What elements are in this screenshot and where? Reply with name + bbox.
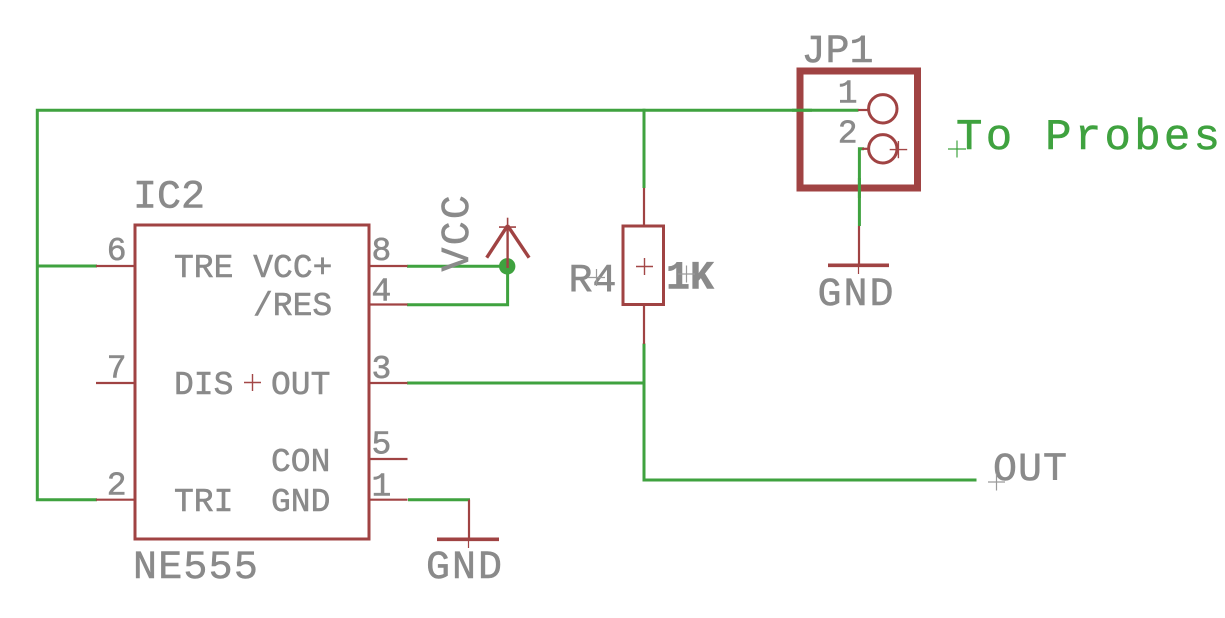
wire junction to pin4 (/RES) — [407, 265, 508, 305]
svg-text:OUT: OUT — [993, 448, 1068, 493]
wire pin6 branch — [36, 265, 97, 268]
junction dot VCC node — [499, 258, 515, 274]
IC2 origin cross — [244, 374, 261, 391]
JP1 pad 1 circle — [869, 95, 897, 123]
svg-text:NE555: NE555 — [133, 546, 259, 591]
resistor R4 body — [623, 226, 664, 305]
ground symbol below pin1 — [437, 500, 499, 548]
wire overlay over JP1 bottom edge — [858, 178, 861, 198]
wire overlay over JP1 left edge — [792, 109, 812, 112]
wire R4 bottom to OUT label — [644, 344, 977, 481]
svg-text:7: 7 — [107, 351, 127, 388]
svg-text:DIS: DIS — [174, 367, 233, 404]
svg-text:1: 1 — [372, 469, 392, 506]
svg-text:4: 4 — [372, 274, 392, 311]
svg-text:CON: CON — [271, 444, 330, 481]
pin 6 stub — [96, 265, 135, 267]
svg-text:3: 3 — [372, 351, 392, 388]
JP1 pad 2 circle — [869, 135, 897, 163]
svg-text:GND: GND — [271, 484, 330, 521]
svg-text:GND: GND — [817, 273, 895, 318]
To Probes origin cross — [948, 141, 966, 158]
pin 1 stub — [369, 499, 408, 501]
wire pin1 to GND — [408, 498, 470, 501]
svg-text:IC2: IC2 — [133, 176, 205, 221]
svg-text:To Probes: To Probes — [956, 113, 1223, 163]
svg-text:/RES: /RES — [253, 288, 332, 325]
ground symbol below JP1 — [828, 226, 889, 274]
svg-text:OUT: OUT — [271, 367, 330, 404]
pin 5 stub — [369, 458, 408, 460]
R4 origin cross — [636, 258, 653, 275]
1K text origin cross — [678, 266, 695, 283]
svg-text:1K: 1K — [666, 257, 714, 302]
svg-text:1: 1 — [838, 76, 858, 113]
svg-text:2: 2 — [107, 468, 127, 505]
wire bus to R4 top — [643, 109, 646, 188]
wire pin3 OUT net horizontal — [407, 382, 646, 385]
svg-text:JP1: JP1 — [802, 30, 874, 75]
pin 2 stub — [96, 499, 135, 501]
svg-text:GND: GND — [426, 546, 504, 591]
pin 7 stub — [96, 382, 135, 384]
power symbol VCC arrow — [487, 218, 529, 258]
pin 3 stub — [369, 382, 408, 384]
wire pin8 to VCC junction — [407, 265, 508, 268]
IC U1: IC2 NE555 body — [135, 225, 369, 539]
wire JP1 pin2 to GND — [859, 149, 864, 226]
JP1 pin2 stub — [862, 148, 869, 150]
connector JP1 body — [800, 71, 918, 188]
svg-text:8: 8 — [372, 233, 392, 270]
resistor R4 top pin — [643, 188, 645, 226]
pin 8 stub — [369, 265, 408, 267]
svg-text:TRE VCC+: TRE VCC+ — [174, 250, 332, 287]
R4 text origin cross — [588, 269, 605, 286]
svg-text:VCC: VCC — [436, 193, 481, 272]
svg-text:2: 2 — [838, 116, 858, 153]
OUT text origin cross — [988, 474, 1005, 491]
pin 4 stub — [369, 303, 408, 305]
svg-text:R4: R4 — [569, 259, 617, 304]
JP1 pin1 stub — [858, 109, 869, 111]
resistor R4 bottom pin — [643, 305, 645, 345]
svg-text:6: 6 — [107, 233, 127, 270]
VCC arrow stem over dot — [506, 226, 508, 268]
svg-text:TRI: TRI — [174, 484, 233, 521]
JP1 origin cross — [890, 141, 908, 158]
svg-text:5: 5 — [372, 427, 392, 464]
wire VCC net: top bus + left vertical + pin2 segment — [37, 110, 858, 500]
